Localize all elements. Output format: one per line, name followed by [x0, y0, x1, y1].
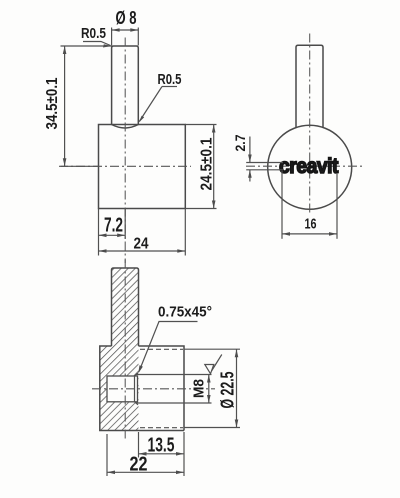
section wall block outline	[100, 346, 184, 431]
section hatching	[100, 268, 139, 431]
svg-text:16: 16	[305, 217, 317, 233]
front view pin cylinder outline	[112, 46, 139, 128]
svg-text:M8: M8	[191, 379, 208, 398]
svg-text:R0.5: R0.5	[81, 25, 106, 42]
svg-text:Ø 8: Ø 8	[116, 8, 137, 28]
dimension 34.5±0.1	[44, 46, 112, 166]
svg-text:24: 24	[134, 236, 149, 253]
label 0.75x45° with leader	[138, 305, 212, 374]
M8 tapped hole	[107, 373, 138, 405]
svg-text:creavit: creavit	[279, 155, 338, 178]
svg-text:22: 22	[130, 454, 148, 476]
svg-text:13.5: 13.5	[148, 435, 175, 457]
dimension 22	[107, 434, 184, 476]
side view stem outline	[296, 45, 323, 128]
surface finish symbol	[205, 355, 222, 374]
section horizontal centerline	[92, 388, 215, 390]
svg-text:34.5±0.1: 34.5±0.1	[44, 77, 61, 129]
front view horizontal centerline	[59, 165, 191, 167]
svg-text:2.7: 2.7	[232, 134, 248, 151]
creavit logo	[279, 155, 338, 178]
dimension Ø8	[112, 8, 139, 46]
svg-text:24.5±0.1: 24.5±0.1	[199, 137, 216, 190]
svg-text:Ø 22.5: Ø 22.5	[218, 372, 238, 409]
dimension 2.7	[232, 134, 283, 181]
side view horizontal centerline	[246, 165, 363, 167]
dimension 13.5	[139, 432, 185, 476]
dimension 24.5±0.1	[185, 125, 216, 209]
front view block outline	[99, 125, 186, 209]
label R0.5 right with leader	[139, 71, 182, 123]
section stem outline	[112, 268, 139, 346]
dimension 24	[99, 209, 186, 256]
svg-text:R0.5: R0.5	[158, 71, 182, 88]
section cylinder outline	[139, 346, 185, 431]
dimension 16	[282, 171, 337, 239]
dimension 7.2	[99, 209, 126, 240]
dimension Ø22.5	[184, 349, 240, 427]
svg-text:7.2: 7.2	[104, 215, 123, 237]
section vertical centerline	[124, 260, 126, 442]
side view circle body	[268, 125, 352, 209]
dimension M8	[136, 375, 212, 404]
svg-text:0.75x45°: 0.75x45°	[158, 305, 212, 321]
side view vertical centerline	[309, 34, 311, 215]
front view vertical centerline	[124, 38, 126, 264]
label R0.5 upper-left with leader	[81, 25, 112, 48]
